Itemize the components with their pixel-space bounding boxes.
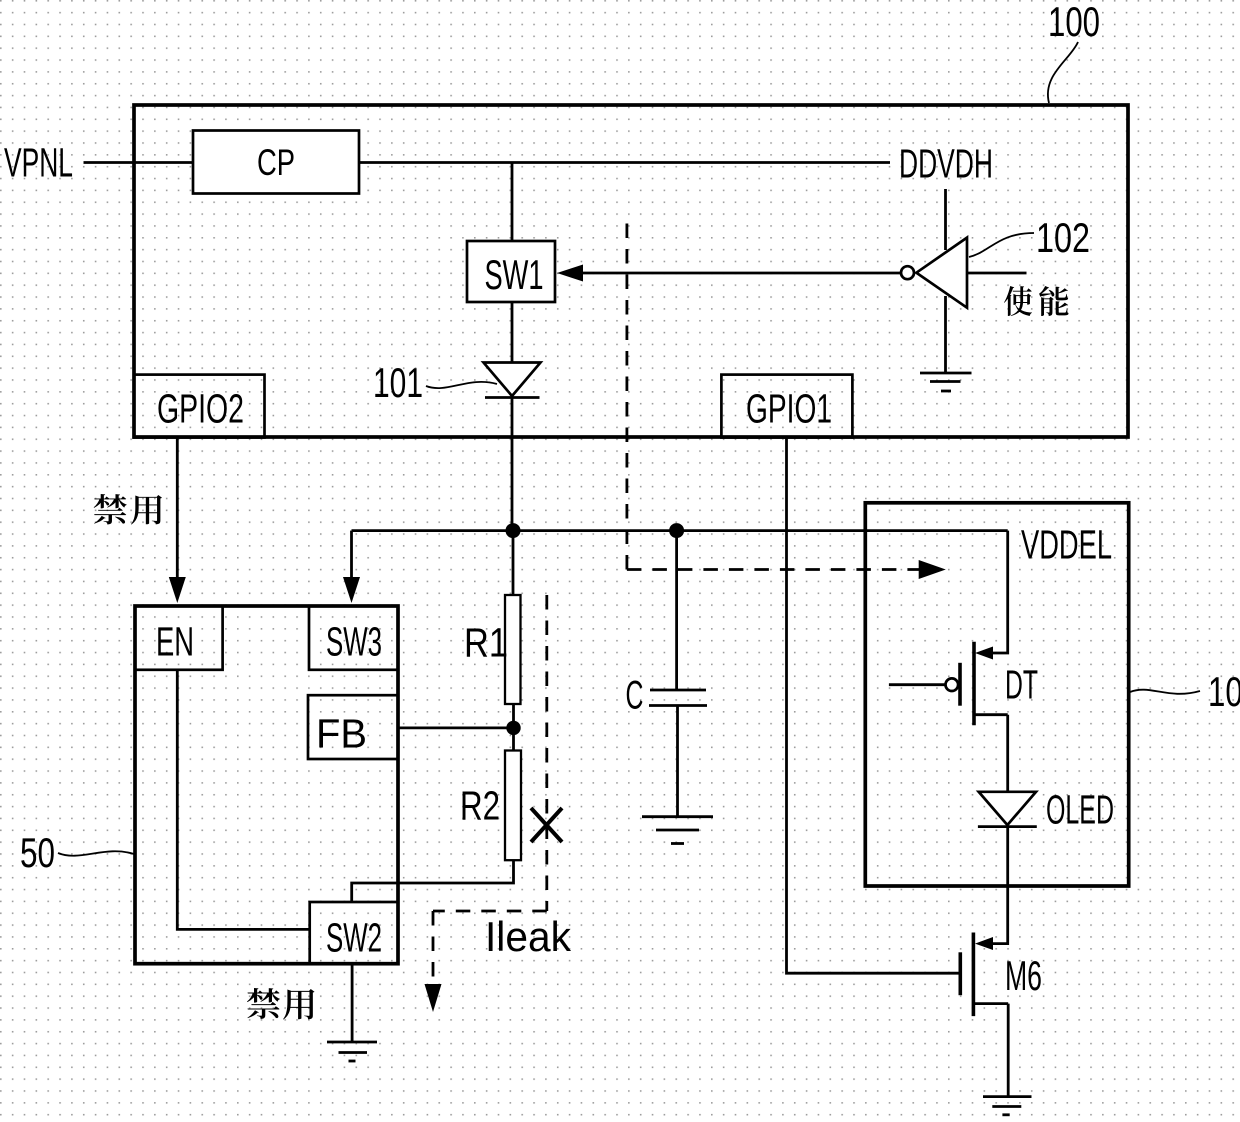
leader line for 104 <box>1130 690 1200 694</box>
svg-text:VDDEL: VDDEL <box>1021 522 1112 568</box>
svg-text:SW2: SW2 <box>326 915 382 961</box>
transistor DT (PMOS) <box>889 642 1008 726</box>
wire GPIO2 to EN with arrow <box>176 438 179 581</box>
svg-text:GPIO2: GPIO2 <box>157 386 244 432</box>
wire FB to node <box>398 727 514 730</box>
wire R1 to FB node <box>512 704 515 751</box>
wire SW2 to ground <box>351 964 354 1042</box>
svg-text:DT: DT <box>1005 662 1038 708</box>
ground (SW2) <box>327 1042 377 1061</box>
ground (M6) <box>983 1097 1032 1115</box>
junction dot FB <box>506 721 520 735</box>
wire diode to node <box>511 398 514 532</box>
wire R2 to SW2 <box>352 860 514 902</box>
resistor R2 <box>505 751 521 861</box>
box SW2 <box>310 902 398 964</box>
wire M6 source to ground <box>1007 1004 1010 1097</box>
svg-text:102: 102 <box>1036 214 1090 261</box>
label 使能 (enable) <box>1004 286 1068 316</box>
svg-text:DDVDH: DDVDH <box>899 141 993 187</box>
leader line for 102 <box>969 233 1034 257</box>
box GPIO2 <box>134 375 265 438</box>
leader line for 50 <box>58 851 134 855</box>
transistor M6 (NMOS) <box>960 933 1008 1017</box>
box CP <box>193 131 359 194</box>
svg-text:OLED: OLED <box>1046 787 1114 833</box>
capacitor C <box>649 690 707 706</box>
wire node to capacitor C <box>675 531 678 690</box>
box GPIO1 <box>721 375 852 438</box>
chip box 100 <box>134 105 1128 437</box>
svg-text:50: 50 <box>20 829 55 876</box>
X mark broken path <box>531 808 562 842</box>
node bus horizontal <box>352 529 1008 532</box>
ground (C) <box>642 817 713 844</box>
wire SW1 vertical from CP bus <box>511 163 514 242</box>
label 禁用 (disable) bottom <box>247 988 315 1019</box>
svg-text:M6: M6 <box>1005 952 1042 999</box>
svg-text:C: C <box>626 674 644 718</box>
svg-text:Ileak: Ileak <box>485 913 572 960</box>
svg-text:R1: R1 <box>464 620 508 666</box>
wire C to ground <box>676 706 679 817</box>
wire VPNL input to CP and on to DDVDH <box>84 161 891 164</box>
box SW3 <box>309 606 398 670</box>
wire node into panel to DT drain <box>991 531 1008 653</box>
svg-text:GPIO1: GPIO1 <box>746 386 832 432</box>
leader line for 101 <box>426 382 497 388</box>
leader line for 100 <box>1048 42 1078 103</box>
wire bus to SW3 with arrow <box>350 531 353 580</box>
diode OLED <box>978 792 1037 827</box>
junction dot B <box>669 523 684 538</box>
box 104 OLED panel <box>865 503 1128 886</box>
svg-text:FB: FB <box>316 711 367 757</box>
junction dot A <box>506 523 521 538</box>
svg-text:SW1: SW1 <box>485 251 544 298</box>
box EN <box>135 606 223 670</box>
svg-text:R2: R2 <box>460 783 500 829</box>
svg-text:CP: CP <box>257 142 295 183</box>
wire SW1 to diode 101 <box>511 302 514 364</box>
label 禁用 (disable) top <box>94 494 162 525</box>
svg-text:100: 100 <box>1048 0 1100 45</box>
box FB <box>308 695 398 759</box>
diode 101 <box>484 363 541 398</box>
svg-text:101: 101 <box>373 359 423 406</box>
wire GPIO1 to M6 gate <box>787 438 961 974</box>
box SW1 <box>467 241 555 302</box>
wire inverter to ground <box>944 296 947 373</box>
dashed Ileak path <box>425 595 547 1012</box>
wire DT source to OLED <box>1006 715 1009 792</box>
wire inverter input 使能 <box>967 272 1027 275</box>
resistor R1 <box>505 595 521 704</box>
box 50 regulator <box>135 606 398 964</box>
wire OLED to M6 drain <box>991 827 1008 944</box>
ground (inverter) <box>920 373 972 391</box>
svg-text:104: 104 <box>1208 668 1240 715</box>
inverter U102 <box>916 238 967 308</box>
svg-text:EN: EN <box>156 619 194 665</box>
wire EN to SW2 <box>177 670 309 930</box>
svg-text:VPNL: VPNL <box>4 140 73 186</box>
svg-text:SW3: SW3 <box>326 619 382 665</box>
wire DDVDH to inverter <box>944 189 947 250</box>
wire inverter output to SW1 <box>576 272 901 275</box>
dashed sense path from DDVDH node <box>627 224 946 580</box>
wire node to R1 <box>512 531 515 595</box>
